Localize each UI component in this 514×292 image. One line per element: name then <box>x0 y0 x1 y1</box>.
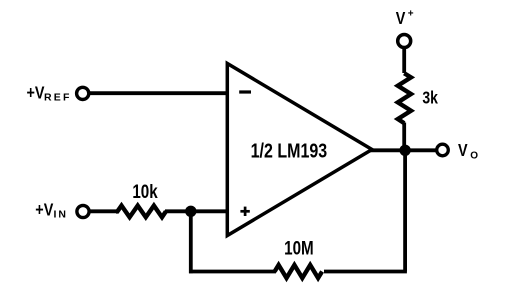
wire: bottom rail right segment (10M to output branch) <box>324 270 407 274</box>
label +VREF <box>27 83 72 104</box>
svg-text:V: V <box>458 141 468 161</box>
terminal VO (output) <box>437 144 449 156</box>
svg-text:O: O <box>470 151 478 162</box>
svg-text:10M: 10M <box>284 237 314 259</box>
resistor 10M (horizontal zigzag, feedback) <box>275 265 323 278</box>
svg-text:1/2 LM193: 1/2 LM193 <box>251 140 327 162</box>
resistor 10k (horizontal zigzag) <box>116 206 166 218</box>
wire: op-amp output to VO terminal <box>370 148 437 152</box>
svg-text:+V: +V <box>27 83 45 103</box>
wire: +VIN terminal to 10k resistor <box>90 209 116 213</box>
svg-text:3k: 3k <box>422 89 438 108</box>
op-amp U1 (1/2 LM193) triangle <box>227 64 372 236</box>
svg-text:10k: 10k <box>132 180 158 202</box>
svg-text:+: + <box>408 9 414 20</box>
svg-text:V: V <box>396 9 406 29</box>
wire: V+ terminal down to 3k resistor <box>402 47 406 73</box>
terminal +VIN <box>77 205 89 217</box>
wire: bottom rail left segment (junction to 10M) <box>189 270 276 274</box>
wire: 10k resistor to op-amp non-inverting input (through junction) <box>165 209 229 213</box>
op-amp inverting input label (minus) <box>239 90 251 93</box>
label VO <box>458 141 478 162</box>
wire: 3k resistor down to output node <box>402 123 406 152</box>
svg-text:IN: IN <box>54 209 69 221</box>
resistor 3k (vertical zigzag) <box>398 73 411 123</box>
label V+ <box>396 9 414 29</box>
label +VIN <box>35 200 68 221</box>
terminal V+ (supply) <box>398 35 411 48</box>
terminal +VREF <box>77 87 89 99</box>
wire: junction down to feedback bottom rail <box>189 210 193 273</box>
output node dot <box>399 145 410 156</box>
svg-text:+V: +V <box>35 200 53 220</box>
junction node at non-inverting input <box>185 206 196 217</box>
wire: output node down to bottom rail <box>403 150 407 272</box>
op-amp non-inverting input label (plus) <box>240 207 249 216</box>
wire: +VREF terminal to op-amp inverting input <box>89 91 229 95</box>
svg-text:REF: REF <box>44 92 72 104</box>
